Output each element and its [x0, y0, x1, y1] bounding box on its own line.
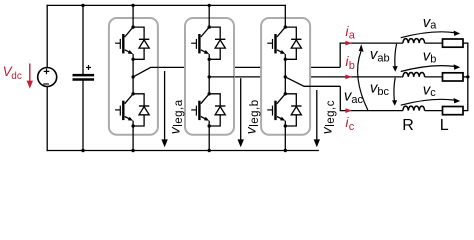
node leg c bottom rail junction: [284, 149, 287, 152]
node top rail C1: [81, 4, 84, 7]
node top rail leg b: [208, 4, 211, 7]
node leg c bottom diode return junction: [284, 124, 287, 127]
wire diode D4 branch: [209, 94, 220, 126]
svg-text:R: R: [402, 117, 414, 134]
node leg a bottom rail junction: [131, 149, 134, 152]
wire top DC rail: [47, 4, 286, 6]
arrow v_ac arc: [358, 52, 368, 111]
arrow v_leg,b measurement: [240, 78, 242, 140]
label v_leg,a: [166, 99, 185, 134]
transistor Q4 (IGBT bottom, leg b): [191, 94, 209, 121]
leg b module outline: [185, 18, 234, 135]
diode D2 (freewheeling, leg a bottom): [139, 106, 149, 115]
diode D5 (freewheeling, leg c top): [291, 39, 301, 48]
svg-text:b: b: [349, 60, 355, 72]
wire leg a bus from top rail: [132, 5, 134, 27]
wire phase c to neutral: [463, 110, 468, 112]
wire leg b output: [209, 76, 234, 78]
node leg b midpoint tap: [208, 75, 211, 78]
wire diode D3 branch: [209, 27, 220, 59]
arrow v_bc: [394, 78, 395, 101]
capacitor C1 wire top: [82, 5, 84, 75]
wire leg c bus from top rail: [284, 5, 286, 27]
wire neutral vertical: [467, 43, 469, 111]
wire diode D6 branch: [285, 94, 296, 126]
node neutral / phase b: [466, 75, 469, 78]
inductor load phase b: [403, 72, 425, 76]
arrow current i_c: [345, 108, 352, 113]
wire source branch upper: [46, 5, 48, 68]
inductor load phase a: [403, 39, 425, 43]
wire phase b L to R: [425, 76, 443, 78]
node top rail leg a: [131, 4, 134, 7]
arrow current i_a: [345, 41, 352, 46]
wire phase a L to R: [425, 42, 443, 44]
inductor load phase c: [403, 106, 425, 110]
arrow v_c across load: [401, 99, 455, 105]
leg a module outline: [109, 18, 158, 135]
wire phase b feed from leg b midpoint: [209, 76, 403, 78]
wire phase a step: [340, 43, 403, 67]
wire leg b bus below Q3: [208, 54, 210, 94]
wire phase c L to R: [425, 110, 443, 112]
wire phase b to neutral: [463, 76, 468, 78]
node leg a bottom collector junction: [131, 92, 134, 95]
transistor Q5 (IGBT top, leg c): [267, 27, 285, 54]
svg-text:a: a: [349, 30, 356, 42]
wire phase c step: [340, 86, 403, 110]
node bottom rail C1: [81, 149, 84, 152]
wire diode D5 branch: [285, 27, 296, 59]
arrow v_a across load: [401, 32, 455, 38]
node leg b bottom diode return junction: [208, 124, 211, 127]
arrow v_leg,a measurement: [164, 71, 166, 140]
wire diode D2 branch: [133, 94, 144, 126]
node leg b bottom rail junction: [208, 149, 211, 152]
wire leg a output diagonal: [133, 67, 159, 77]
label v_leg,b: [243, 99, 262, 134]
transistor Q2 (IGBT bottom, leg a): [115, 94, 133, 121]
node leg a top diode return junction: [131, 58, 134, 61]
wire leg c output diagonal: [285, 77, 311, 86]
node leg c bottom collector junction: [284, 92, 287, 95]
wire diode D1 branch: [133, 27, 144, 59]
wire leg a bus below Q1: [132, 54, 134, 94]
node leg b bottom collector junction: [208, 92, 211, 95]
wire source branch lower: [46, 87, 48, 152]
node leg c top diode return junction: [284, 58, 287, 61]
wire leg c bus below Q6: [284, 121, 286, 151]
resistor load phase a: [443, 39, 464, 47]
capacitor C1: [73, 74, 95, 77]
arrow v_leg,c measurement: [316, 90, 318, 140]
capacitor C1 wire bottom: [82, 80, 84, 151]
svg-text:c: c: [349, 121, 355, 133]
wire phase c feed from leg c midpoint: [304, 85, 340, 87]
label v_leg,c: [319, 100, 338, 134]
node leg c top collector junction: [284, 25, 287, 28]
transistor Q6 (IGBT bottom, leg c): [267, 94, 285, 121]
leg c module outline: [261, 18, 310, 135]
wire leg b bus below Q4: [208, 121, 210, 151]
node leg b top diode return junction: [208, 58, 211, 61]
wire leg b bus from top rail: [208, 5, 210, 27]
transistor Q1 (IGBT top, leg a): [115, 27, 133, 54]
label C1 polarity +: [86, 67, 91, 69]
wire leg c bus below Q5: [284, 54, 286, 94]
node leg a midpoint tap: [131, 75, 134, 78]
diode D3 (freewheeling, leg b top): [215, 39, 225, 48]
resistor load phase b: [443, 73, 464, 81]
arrow v_b across load: [401, 66, 455, 72]
svg-text:L: L: [440, 117, 449, 134]
wire leg a bus below Q2: [132, 121, 134, 151]
arrow current i_b: [345, 75, 352, 80]
wire phase a feed from leg a midpoint: [151, 66, 341, 68]
node leg c midpoint tap: [284, 75, 287, 78]
node leg a top collector junction: [131, 25, 134, 28]
wire bottom DC rail: [47, 150, 319, 152]
diode D4 (freewheeling, leg b bottom): [215, 106, 225, 115]
voltage source Vdc: [38, 68, 57, 87]
node leg b top collector junction: [208, 25, 211, 28]
arrow Vdc reference: [29, 64, 31, 82]
arrow v_ab: [395, 44, 397, 67]
node leg a bottom diode return junction: [131, 124, 134, 127]
diode D6 (freewheeling, leg c bottom): [291, 106, 301, 115]
transistor Q3 (IGBT top, leg b): [191, 27, 209, 54]
diode D1 (freewheeling, leg a top): [139, 39, 149, 48]
resistor load phase c: [443, 107, 464, 115]
wire phase a to neutral: [463, 42, 468, 44]
svg-text:dc: dc: [11, 71, 22, 82]
